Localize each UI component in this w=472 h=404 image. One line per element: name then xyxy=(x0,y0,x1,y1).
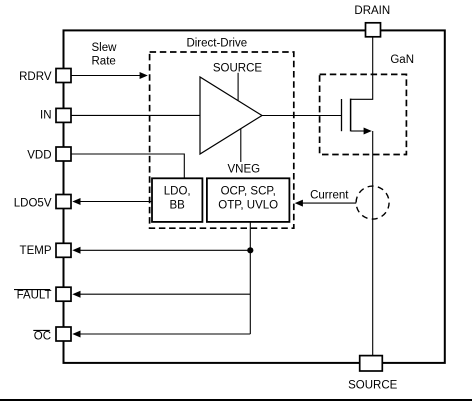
svg-text:LDO,: LDO, xyxy=(164,186,191,198)
wire IN to driver input xyxy=(72,114,201,116)
svg-text:Current: Current xyxy=(310,189,349,201)
arrowhead TEMP xyxy=(72,247,80,254)
IC outer boundary box xyxy=(64,30,445,363)
pin DRAIN xyxy=(366,23,381,37)
GaN dashed block xyxy=(320,74,407,154)
overline FAULT xyxy=(14,289,50,291)
svg-text:RDRV: RDRV xyxy=(19,71,52,83)
svg-text:IN: IN xyxy=(40,109,52,121)
pin OC xyxy=(56,327,71,341)
svg-text:OC: OC xyxy=(34,330,51,342)
pin IN xyxy=(56,108,71,122)
LDO BB block xyxy=(152,178,202,222)
svg-text:VDD: VDD xyxy=(27,149,51,161)
pin RDRV xyxy=(56,69,71,83)
pin FAULT xyxy=(56,287,71,301)
svg-text:VNEG: VNEG xyxy=(228,163,261,175)
pin SOURCE xyxy=(360,356,383,371)
svg-text:TEMP: TEMP xyxy=(20,245,52,257)
wire VDD to LDO block xyxy=(72,154,185,178)
SOURCE leader line xyxy=(237,73,239,101)
VNEG leader line xyxy=(240,129,242,162)
svg-text:Rate: Rate xyxy=(92,56,116,68)
pin TEMP xyxy=(56,243,71,257)
transistor Q1 gate plate xyxy=(341,99,343,131)
wire LDO5V xyxy=(79,201,152,203)
wire source tap xyxy=(351,130,366,132)
bottom page rule xyxy=(0,399,472,401)
op-amp driver triangle xyxy=(200,77,262,154)
arrowhead source tap xyxy=(364,128,372,135)
svg-text:DRAIN: DRAIN xyxy=(354,5,390,17)
arrowhead LDO5V xyxy=(72,198,80,205)
wire FAULT xyxy=(79,293,250,295)
wire drain tap to DRAIN pin xyxy=(351,37,373,100)
arrowhead current sense xyxy=(295,200,303,207)
Direct-Drive dashed block xyxy=(150,52,294,228)
junction dot xyxy=(247,247,253,253)
current sense dashed circle xyxy=(356,186,389,219)
svg-text:BB: BB xyxy=(170,200,186,212)
arrowhead FAULT xyxy=(72,291,80,298)
svg-text:SOURCE: SOURCE xyxy=(213,62,263,74)
pin LDO5V xyxy=(56,195,71,209)
OCP SCP OTP UVLO block xyxy=(207,178,290,222)
svg-text:Direct-Drive: Direct-Drive xyxy=(186,38,247,50)
wire OC xyxy=(79,333,250,335)
overline OC xyxy=(33,329,50,331)
transistor Q1 channel plate xyxy=(350,99,352,132)
arrowhead RDRV xyxy=(140,72,148,79)
svg-text:OTP, UVLO: OTP, UVLO xyxy=(218,200,278,212)
arrowhead OC xyxy=(72,331,80,338)
wire source down to SOURCE pin xyxy=(372,131,374,356)
wire current sense xyxy=(302,202,356,204)
svg-text:FAULT: FAULT xyxy=(17,289,52,301)
wire TEMP xyxy=(79,249,250,251)
svg-text:SOURCE: SOURCE xyxy=(348,380,398,392)
pin VDD xyxy=(56,147,71,161)
wire RDRV to Direct-Drive xyxy=(72,75,142,77)
svg-text:GaN: GaN xyxy=(390,54,414,66)
svg-text:OCP, SCP,: OCP, SCP, xyxy=(221,186,276,198)
svg-text:Slew: Slew xyxy=(92,42,118,54)
svg-text:LDO5V: LDO5V xyxy=(14,198,52,210)
wire driver output to gate xyxy=(262,115,341,117)
wire OCP block down to status lines xyxy=(249,222,251,334)
